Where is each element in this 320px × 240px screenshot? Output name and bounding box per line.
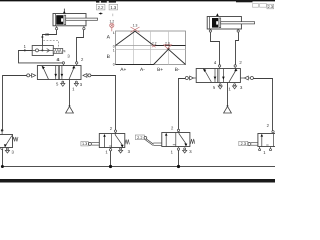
ruler label box 2.2	[96, 4, 105, 10]
valve 2.1 right air pilot	[240, 76, 253, 80]
red switch marker 2.2 at A end	[152, 42, 157, 48]
valve 2.2 roller lever actuator and label	[135, 135, 162, 145]
cylinder A piston position arrow	[63, 9, 66, 14]
wire: valve 1.1 left pilot line	[3, 75, 27, 77]
air supply under valve 2.1	[224, 105, 232, 113]
wire: valve 2.1 port 1 to air supply	[227, 82, 229, 106]
valve 1.3 roller actuator and label	[81, 142, 99, 147]
valve 1.1 (5/2 way, double air pilot)	[37, 66, 81, 80]
distance ruler for cylinder B	[236, 0, 266, 7]
wire: valve 2.1 right pilot to valve 2.3 port 2	[253, 79, 272, 131]
valve 2.2 (3/2 roller lever valve)	[162, 133, 195, 147]
wire: cylinder B left port to valve 2.1 port 4	[211, 32, 220, 64]
svg-text:A+: A+	[120, 67, 126, 73]
bus junction dot valve 1.3	[109, 165, 112, 168]
valve 2.1 top port circles (4 and 2)	[218, 65, 236, 69]
valve 2.2 top port 2	[171, 125, 180, 132]
trace B	[116, 48, 186, 64]
svg-text:B+: B+	[157, 67, 163, 73]
svg-text:2.3: 2.3	[241, 142, 246, 146]
svg-text:1.3: 1.3	[133, 23, 138, 27]
svg-text:1.3: 1.3	[110, 5, 116, 10]
valve 1.1 bottom port labels 5 1 3	[56, 82, 83, 92]
ruler marker arrow left (2.2)	[99, 12, 103, 14]
bus junction dot left	[1, 165, 4, 168]
valve 1.2 (3/2 roller, cut off at left edge)	[0, 135, 18, 148]
diagram step labels A+ A- B+ B-	[120, 67, 180, 73]
air supply under valve 1.1	[66, 105, 74, 113]
svg-text:2.2: 2.2	[98, 5, 104, 10]
sequence valve dashed pilot line	[43, 41, 58, 49]
trace A	[116, 31, 186, 45]
pressure sequence valve	[32, 45, 53, 55]
valve 2.1 (5/2 way, double air pilot)	[196, 69, 240, 83]
valve 1.1 exhaust 3	[74, 81, 78, 86]
valve 2.3 (3/2 roller valve, cut off at right edge)	[258, 134, 280, 147]
wire: cylinder A right port to valve 1.1 port 2	[77, 30, 84, 62]
valve 1.1 right air pilot	[83, 74, 91, 78]
valve 1.1 exhaust 5	[61, 81, 65, 86]
valve 1.2 top port	[1, 129, 4, 134]
valve 2.1 left air pilot	[185, 76, 196, 80]
cylinder A port stubs	[55, 26, 85, 30]
valve 2.1 port labels 4 2	[214, 60, 242, 65]
wire: cylinder B right port to valve 2.1 port 2	[236, 32, 239, 64]
wire: valve 2.2 port 2 to valve 2.1 left pilot	[179, 79, 186, 130]
wire: sequence valve port 1 loop to valve 1.1 port 4	[19, 49, 63, 63]
bottom frame bar	[0, 179, 275, 183]
wire: valve 1.3 port 1 to bus	[110, 151, 112, 167]
wire: cylinder A left port to sequence valve port 2	[41, 30, 56, 45]
air bus line	[2, 166, 275, 168]
wire: valve 1.1 port 1 to air supply	[69, 80, 71, 107]
valve 2.2 bottom port 1	[171, 147, 180, 155]
red marker 1.2 (roller position)	[109, 20, 114, 32]
diagram axis labels	[107, 31, 115, 67]
valve 1.3 bottom port 1	[105, 148, 111, 155]
wire: valve 1.2 port 1 to bus	[1, 148, 3, 167]
bus junction dot valve 2.2	[177, 165, 180, 168]
sequence valve spring box	[53, 49, 65, 54]
svg-text:1: 1	[113, 31, 115, 35]
top frame line	[0, 0, 275, 2]
ruler tick under 1.3	[112, 14, 114, 17]
distance ruler for cylinder A	[96, 0, 116, 3]
ruler label box 1.3	[109, 4, 118, 10]
cylinder A (double-acting)	[53, 14, 98, 26]
valve 2.1 exhaust 5	[218, 84, 222, 89]
valve 2.3 roller actuator and label	[239, 141, 258, 146]
valve 1.2 exhaust 3	[5, 148, 14, 155]
cylinder B port stubs	[209, 29, 239, 32]
cylinder B (double-acting)	[207, 17, 254, 30]
displacement-step diagram grid	[116, 31, 186, 65]
svg-text:1.2: 1.2	[109, 20, 114, 24]
valve 1.1 top port circles (4 and 2)	[62, 62, 78, 66]
wire: left edge vertical to valve 1.2	[2, 75, 4, 129]
valve 1.1 left air pilot	[27, 74, 36, 78]
valve 1.1 port labels 4 2	[56, 57, 84, 62]
svg-text:A-: A-	[140, 67, 145, 73]
sequence valve port labels	[24, 32, 71, 62]
svg-text:2.3: 2.3	[268, 5, 273, 9]
svg-text:B-: B-	[175, 67, 180, 73]
valve 2.1 bottom port labels 5 1 3	[213, 85, 243, 92]
ruler label box 2.3	[267, 4, 274, 9]
red switch marker 2.3 at B peak	[164, 41, 172, 48]
valve 2.1 exhaust 3	[233, 84, 237, 89]
red switch marker 1.3 at A peak	[131, 23, 140, 32]
valve 1.3 top port 2	[110, 126, 117, 134]
svg-text:2.2: 2.2	[137, 136, 142, 140]
valve 1.3 exhaust 3	[119, 148, 131, 154]
valve 1.3 (3/2 roller valve)	[99, 134, 129, 148]
wire: valve 2.2 port 1 to bus	[178, 150, 180, 166]
svg-text:1.3: 1.3	[82, 142, 87, 146]
cylinder B piston position arrow	[216, 13, 219, 16]
svg-text:1: 1	[113, 48, 115, 52]
svg-text:0: 0	[113, 62, 115, 66]
wire: valve 1.1 right pilot to valve 1.3 port 2	[91, 76, 116, 131]
valve 2.2 exhaust 3	[183, 148, 193, 154]
valve 2.3 top port 2	[267, 123, 275, 133]
valve 2.3 bottom stubs (ports 1 and 3)	[259, 147, 272, 155]
